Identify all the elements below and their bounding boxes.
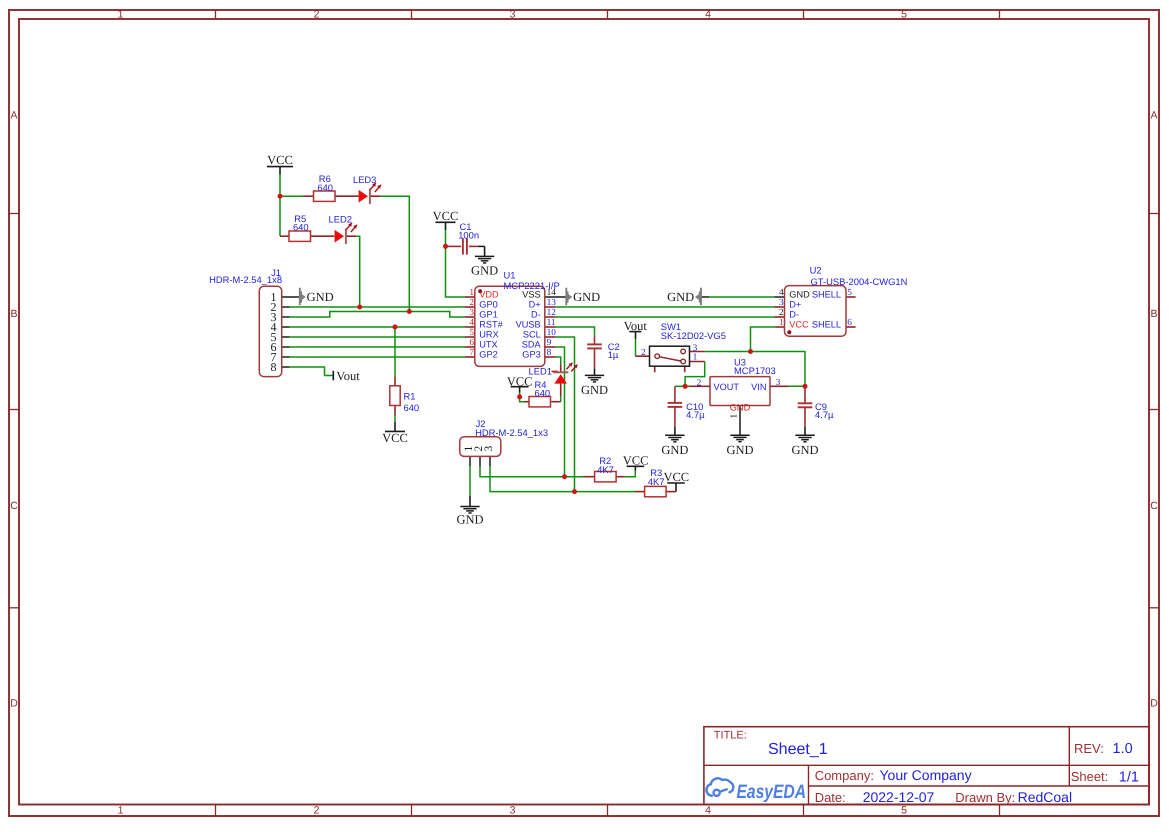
svg-text:3: 3 — [510, 8, 516, 20]
svg-text:VCC: VCC — [433, 209, 459, 223]
svg-text:2: 2 — [697, 378, 702, 388]
svg-text:7: 7 — [469, 348, 474, 358]
svg-text:640: 640 — [535, 387, 551, 398]
svg-text:Vout: Vout — [624, 319, 648, 333]
svg-text:2: 2 — [314, 8, 320, 20]
svg-text:GND: GND — [726, 443, 753, 457]
svg-text:GND: GND — [661, 443, 688, 457]
svg-text:1: 1 — [118, 8, 124, 20]
svg-text:GP2: GP2 — [479, 350, 497, 360]
svg-text:6: 6 — [847, 318, 852, 328]
svg-text:LED3: LED3 — [353, 174, 376, 185]
svg-text:SK-12D02-VG5: SK-12D02-VG5 — [661, 330, 726, 341]
svg-text:GND: GND — [730, 402, 751, 412]
svg-text:TITLE:: TITLE: — [714, 730, 747, 742]
svg-text:4.7µ: 4.7µ — [686, 409, 705, 420]
svg-text:1: 1 — [693, 353, 698, 363]
svg-text:4: 4 — [469, 318, 474, 328]
svg-text:12: 12 — [547, 308, 557, 318]
svg-text:5: 5 — [901, 8, 907, 20]
svg-text:VSS: VSS — [522, 290, 540, 300]
svg-text:Date:: Date: — [815, 790, 846, 805]
svg-text:RedCoal: RedCoal — [1018, 789, 1072, 805]
svg-text:640: 640 — [404, 402, 420, 413]
svg-text:2: 2 — [469, 298, 474, 308]
svg-text:SHELL: SHELL — [812, 290, 841, 300]
svg-text:U2: U2 — [810, 264, 822, 275]
svg-text:GND: GND — [471, 263, 498, 277]
svg-text:VCC: VCC — [623, 453, 649, 467]
svg-text:640: 640 — [293, 221, 309, 232]
svg-text:GP1: GP1 — [479, 310, 497, 320]
svg-text:GND: GND — [573, 290, 600, 304]
svg-text:LED1: LED1 — [529, 366, 552, 377]
svg-text:5: 5 — [901, 805, 907, 817]
svg-text:D+: D+ — [529, 300, 541, 310]
svg-text:SDA: SDA — [522, 340, 542, 350]
svg-text:GND: GND — [307, 290, 334, 304]
svg-text:1: 1 — [469, 288, 474, 298]
svg-text:1: 1 — [779, 318, 784, 328]
svg-text:GND: GND — [791, 443, 818, 457]
svg-text:R1: R1 — [404, 391, 416, 402]
svg-text:SHELL: SHELL — [812, 320, 841, 330]
svg-text:1: 1 — [729, 414, 739, 419]
svg-text:1: 1 — [118, 805, 124, 817]
svg-text:D+: D+ — [789, 300, 801, 310]
svg-text:Drawn By:: Drawn By: — [955, 790, 1015, 805]
svg-text:VUSB: VUSB — [516, 320, 541, 330]
svg-text:6: 6 — [469, 338, 474, 348]
svg-text:SCL: SCL — [523, 330, 541, 340]
svg-text:14: 14 — [547, 288, 557, 298]
svg-text:C: C — [10, 500, 18, 512]
svg-text:A: A — [1150, 110, 1157, 122]
svg-text:5: 5 — [469, 328, 474, 338]
svg-text:EasyEDA: EasyEDA — [737, 781, 807, 803]
svg-text:3: 3 — [483, 445, 495, 451]
svg-text:8: 8 — [547, 348, 552, 358]
svg-text:10: 10 — [547, 328, 557, 338]
svg-text:B: B — [1150, 308, 1157, 320]
svg-text:GND: GND — [667, 290, 694, 304]
svg-text:2: 2 — [314, 805, 320, 817]
svg-text:VCC: VCC — [663, 470, 689, 484]
svg-text:3: 3 — [510, 805, 516, 817]
svg-text:2022-12-07: 2022-12-07 — [863, 789, 935, 805]
svg-text:HDR-M-2.54_1x8: HDR-M-2.54_1x8 — [209, 274, 282, 285]
svg-text:VDD: VDD — [479, 290, 499, 300]
svg-text:B: B — [10, 308, 17, 320]
svg-text:GND: GND — [456, 512, 483, 526]
svg-text:Vout: Vout — [336, 369, 360, 383]
svg-text:HDR-M-2.54_1x3: HDR-M-2.54_1x3 — [475, 427, 548, 438]
svg-text:4K7: 4K7 — [648, 476, 665, 487]
svg-text:C: C — [1150, 500, 1158, 512]
svg-text:MCP1703: MCP1703 — [734, 365, 776, 376]
svg-text:UTX: UTX — [479, 340, 497, 350]
svg-text:URX: URX — [479, 330, 498, 340]
svg-text:GP3: GP3 — [522, 350, 540, 360]
svg-text:640: 640 — [317, 182, 333, 193]
svg-text:D-: D- — [531, 310, 541, 320]
svg-text:Company:: Company: — [815, 768, 874, 783]
svg-text:4K7: 4K7 — [597, 464, 614, 475]
svg-text:9: 9 — [547, 338, 552, 348]
svg-text:4.7µ: 4.7µ — [815, 409, 834, 420]
svg-text:Your Company: Your Company — [880, 767, 972, 783]
svg-text:D: D — [10, 698, 18, 710]
svg-text:Sheet:: Sheet: — [1071, 769, 1109, 784]
svg-text:1/1: 1/1 — [1119, 769, 1139, 785]
svg-text:5: 5 — [847, 288, 852, 298]
svg-text:VCC: VCC — [382, 431, 408, 445]
svg-text:3: 3 — [779, 298, 784, 308]
svg-text:1µ: 1µ — [608, 349, 619, 360]
svg-text:U1: U1 — [504, 269, 516, 280]
svg-text:4: 4 — [705, 805, 711, 817]
svg-text:2: 2 — [641, 348, 646, 358]
svg-text:3: 3 — [469, 308, 474, 318]
svg-text:4: 4 — [705, 8, 711, 20]
svg-text:100n: 100n — [458, 230, 479, 241]
svg-text:VOUT: VOUT — [714, 382, 740, 392]
svg-text:VCC: VCC — [267, 153, 293, 167]
svg-text:D-: D- — [789, 310, 799, 320]
svg-text:2: 2 — [779, 308, 784, 318]
svg-text:GND: GND — [789, 290, 810, 300]
svg-text:13: 13 — [547, 298, 557, 308]
svg-text:REV:: REV: — [1074, 741, 1104, 756]
svg-text:GND: GND — [581, 383, 608, 397]
svg-text:D: D — [1150, 698, 1158, 710]
svg-text:1.0: 1.0 — [1113, 741, 1133, 757]
svg-text:Sheet_1: Sheet_1 — [768, 741, 828, 758]
svg-text:3: 3 — [776, 378, 781, 388]
svg-text:LED2: LED2 — [329, 213, 352, 224]
svg-text:11: 11 — [547, 318, 556, 328]
svg-text:GP0: GP0 — [479, 300, 497, 310]
svg-text:RST#: RST# — [479, 320, 503, 330]
svg-text:VCC: VCC — [789, 320, 809, 330]
svg-text:GT-USB-2004-CWG1N: GT-USB-2004-CWG1N — [811, 276, 908, 287]
svg-text:A: A — [10, 110, 17, 122]
svg-text:8: 8 — [271, 360, 277, 374]
svg-text:4: 4 — [779, 288, 784, 298]
svg-text:VIN: VIN — [751, 382, 766, 392]
